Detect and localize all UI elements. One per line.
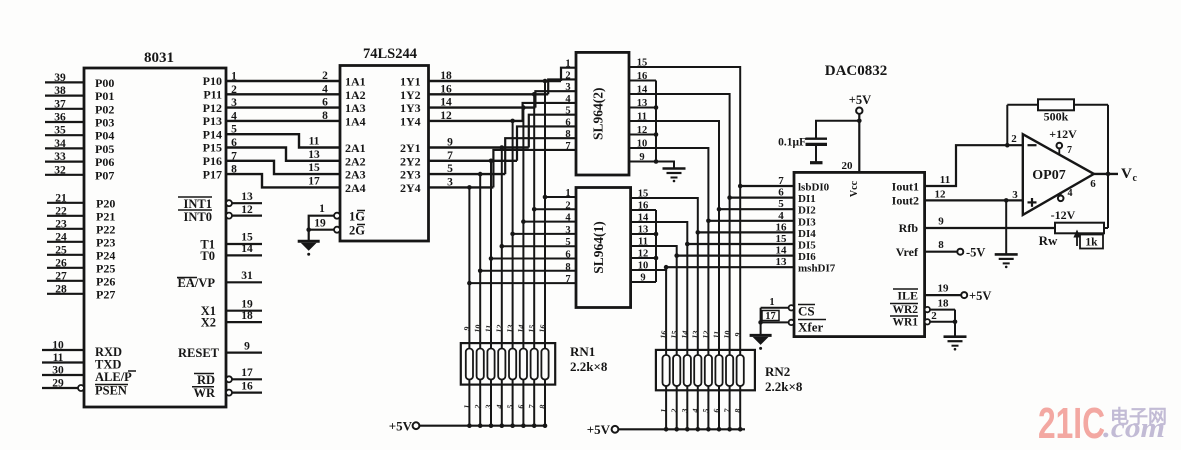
svg-text:lsbDI0: lsbDI0 [798,182,830,194]
wire P13 to 1A4 [226,120,340,122]
svg-text:16: 16 [637,71,648,82]
svg-text:Vcc: Vcc [849,180,860,197]
wire bus D5 vertical down to RN1 [490,161,492,385]
svg-text:P05: P05 [95,142,114,156]
wire RN1 element to common rail [490,385,492,426]
svg-text:30: 30 [52,365,64,377]
wire DI4 into DAC [698,231,794,233]
svg-text:+5V: +5V [849,93,871,107]
svg-text:2.2k×8: 2.2k×8 [765,379,803,394]
pin WR1 bubble [925,319,930,324]
ground at WR1/WR2 [944,335,967,338]
svg-text:OP07: OP07 [1032,168,1065,183]
terminal -12V pin 4 [1058,196,1064,202]
svg-text:15: 15 [638,189,649,200]
svg-text:Vref: Vref [896,245,919,259]
svg-text:Iout2: Iout2 [892,194,919,208]
svg-text:16: 16 [776,221,788,233]
junction at RN1 rail [510,423,515,428]
svg-text:34: 34 [54,138,66,150]
resistor RN1 element 7 [531,349,538,380]
wire data D2 jog up to SL964(2) pin 3 [535,91,576,107]
DAC U5 DAC0832 body [794,172,925,336]
svg-text:WR2: WR2 [892,304,918,316]
svg-text:16: 16 [241,380,253,392]
svg-text:17: 17 [241,367,253,379]
wire SL964(1) pin 15 stub [631,197,656,199]
wire data D4 from 74LS244 output [429,146,529,148]
svg-text:11: 11 [309,136,320,148]
resistor RN1 element 2 [477,349,484,380]
wire P14 to 2A1 with jog [226,134,340,147]
wire Iout1 pin 11 [925,145,1023,186]
svg-text:1k: 1k [1085,237,1098,249]
svg-text:1A1: 1A1 [345,75,366,89]
resistor network RN1 body [461,343,555,385]
wire WR1/WR2 tie to ground [954,310,956,337]
junction D3 at bus [510,119,515,124]
resistor RN2 element 1 [663,355,670,386]
wire DI3 into DAC [708,220,794,222]
ground under 74LS244 [298,240,320,243]
wire data D5 from 74LS244 output [429,160,518,162]
potentiometer Rw body [1055,223,1104,234]
wire data D2 from 74LS244 output [429,106,536,108]
svg-text:1: 1 [565,59,570,70]
svg-text:INT0: INT0 [184,210,212,224]
junction D0 at SL964(1) pin [543,195,548,200]
svg-text:2: 2 [565,70,570,81]
svg-text:RN2: RN2 [765,364,790,379]
pin INT0 bubble [226,213,232,219]
capacitor C1 0.1uF plates [806,137,828,139]
svg-text:11: 11 [483,324,493,333]
svg-text:T0: T0 [200,249,215,263]
svg-text:DI2: DI2 [798,205,816,217]
wire CS to junction [761,307,789,309]
wire bus D2 vertical down to RN1 [522,108,524,385]
svg-text:P16: P16 [203,154,222,168]
svg-text:32: 32 [54,164,66,176]
junction D0 at bus [543,79,548,84]
svg-text:9: 9 [244,340,250,352]
junction Vcc/capacitor [857,119,862,124]
svg-text:4: 4 [778,210,784,222]
svg-text:-5V: -5V [966,246,985,260]
wire P15 to 2A2 with jog [226,148,340,161]
wire SL964(1) left pin 2 stub [534,208,576,210]
wire pin 10 RXD stub [42,349,84,351]
wire bus D3 vertical down to RN1 [512,121,514,385]
wire Iout2 pin 12 to op-amp + input [925,199,1023,201]
svg-text:SL964(2): SL964(2) [591,87,606,140]
svg-text:39: 39 [54,72,66,84]
svg-text:Rfb: Rfb [899,221,919,235]
svg-text:19: 19 [241,298,253,310]
wire data D0 jog up to SL964(2) pin 1 [561,68,576,81]
svg-text:P06: P06 [95,155,114,169]
wire ILE pin 19 [925,294,961,296]
wire DI4 vertical down to RN2 [697,232,699,390]
svg-text:3: 3 [1012,189,1018,201]
wire DI2 vertical down to RN2 [718,209,720,390]
pin CS bubble [789,305,794,310]
svg-text:15: 15 [527,324,537,333]
svg-text:5: 5 [565,106,570,117]
wire T0 stub [226,254,262,256]
wire data D1 jog up to SL964(2) pin 2 [548,79,576,94]
wire pin 23 P22 stub [47,228,84,230]
svg-text:1Y4: 1Y4 [400,114,421,128]
wire SL964(1) left pin 5 stub [502,245,576,247]
junction at RN2 rail [696,427,701,432]
junction D1 at bus [532,92,537,97]
svg-text:28: 28 [55,283,67,295]
svg-text:15: 15 [637,58,648,69]
pin 20 Vcc wire [858,114,860,172]
svg-text:14: 14 [637,85,648,96]
svg-text:4: 4 [565,94,571,105]
svg-text:24: 24 [55,231,67,243]
pin Xfer bubble [789,320,794,325]
svg-text:6: 6 [565,250,570,261]
wire SL964(1) pin 12 stub [631,257,656,259]
junction at RN2 rail [706,427,711,432]
svg-text:P02: P02 [95,102,114,116]
svg-text:1Y1: 1Y1 [400,75,421,89]
svg-text:+5V: +5V [587,422,611,437]
wire capacitor C1 to bar [815,144,817,162]
wire SL964(2) pin 10 stub [629,147,656,149]
svg-text:21IC: 21IC [1038,399,1105,448]
wire DI2 into DAC [719,208,794,210]
svg-text:17: 17 [765,311,776,322]
wire SL964(1) pin 14 to DAC DI5 [656,222,687,244]
svg-text:35: 35 [54,125,66,137]
wire WR1 pin 2 [930,321,955,323]
wire op-amp output [1094,173,1118,175]
junction tie 13 of SL964(1) [654,232,659,237]
wire to capacitor C1 [816,121,859,139]
svg-text:+12V: +12V [1049,127,1077,141]
svg-text:1: 1 [319,203,325,215]
svg-text:.com: .com [1103,413,1165,444]
svg-text:2Y4: 2Y4 [400,181,421,195]
wire pin 26 P25 stub [47,267,84,269]
resistor RN1 element 1 [466,349,473,380]
svg-text:P22: P22 [96,222,115,236]
svg-text:22: 22 [55,205,67,217]
svg-text:36: 36 [54,112,66,124]
svg-text:P14: P14 [203,127,222,141]
junction D1 at SL964(1) pin [532,207,537,212]
wire RN2 common rail to +5V [618,428,745,430]
wire DI7 into DAC [666,266,794,268]
svg-text:13: 13 [638,225,649,236]
junction Iout2/ground [1004,198,1009,203]
svg-text:2Y1: 2Y1 [400,141,421,155]
svg-text:13: 13 [308,149,320,161]
svg-text:26: 26 [55,257,67,269]
junction DI2 bus [717,207,722,212]
svg-text:P15: P15 [203,141,222,155]
svg-text:13: 13 [637,98,648,109]
svg-text:P04: P04 [95,129,114,143]
wire pin 35 P04 stub [45,134,84,136]
svg-text:DI1: DI1 [798,193,816,205]
junction at RN1 rail [489,423,494,428]
wire SL964(1) pin 9 stub [631,281,656,283]
svg-text:P27: P27 [96,287,115,301]
svg-text:P07: P07 [95,168,114,182]
junction CS/Xfer [758,320,763,325]
svg-text:17: 17 [308,175,320,187]
svg-text:P13: P13 [203,114,222,128]
junction tie 12 [654,132,659,137]
svg-text:2Y3: 2Y3 [400,168,421,182]
resistor RN1 element 4 [498,349,505,380]
svg-text:7: 7 [778,175,784,187]
svg-text:+5V: +5V [969,289,991,303]
svg-text:6: 6 [322,97,328,109]
wire data D3 jog up to SL964(2) pin 4 [523,103,576,121]
svg-text:10: 10 [52,340,64,352]
junction at RN1 rail [500,423,505,428]
wire DI1 vertical down to RN2 [729,198,731,391]
svg-text:1Y2: 1Y2 [400,88,421,102]
junction DI5 bus [685,242,690,247]
wire SL964(2) pin 9 stub [629,161,656,163]
wire SL964(1) pin 14 stub [631,221,656,223]
wire pin 24 P23 stub [47,241,84,243]
wire SL964(2) unused outputs tie bus [655,81,657,162]
svg-text:2: 2 [322,70,328,82]
svg-text:29: 29 [52,378,64,390]
svg-text:INT1: INT1 [184,197,212,211]
wire pin 27 P26 stub [47,280,84,282]
svg-text:15: 15 [241,232,253,244]
wire 1G to 2G junction [309,216,334,230]
junction D6 at bus [478,172,483,177]
wire SL964(2) pin 16 stub [629,80,656,82]
svg-text:2A2: 2A2 [345,154,366,168]
RN1 bottom pin numbers [462,404,547,410]
wire SL964(2) pin 14 stub [629,93,656,95]
svg-text:10: 10 [473,324,483,333]
svg-text:WR1: WR1 [892,317,918,329]
svg-text:1A2: 1A2 [345,88,366,102]
junction at RN2 rail [727,427,732,432]
terminal +12V pin 7 [1057,143,1063,149]
svg-text:2A1: 2A1 [345,141,366,155]
svg-text:13: 13 [505,324,515,333]
pin 2G bubble [334,227,340,233]
wire SL964(1) left pin 7 stub [469,282,576,284]
svg-text:14: 14 [776,245,788,257]
svg-text:3: 3 [565,225,570,236]
junction tie 13 [654,105,659,110]
ground at op-amp + input [995,253,1018,256]
svg-text:4: 4 [322,83,328,95]
svg-text:2A4: 2A4 [345,181,366,195]
svg-text:2: 2 [931,310,937,322]
svg-text:14: 14 [241,243,253,255]
svg-text:16: 16 [638,201,649,212]
wire pin 28 P27 stub [47,293,84,295]
pin number 17 box [762,311,779,321]
wire RN1 element to common rail [544,385,546,426]
svg-text:1: 1 [565,188,570,199]
svg-text:P01: P01 [95,89,114,103]
svg-text:2: 2 [565,200,570,211]
junction tie 9 [654,159,659,164]
pin 1G bubble [334,213,340,219]
svg-text:8: 8 [938,239,944,251]
svg-text:14: 14 [680,330,690,339]
wire SL964(2) pin 15 to DAC DI0 [656,67,740,186]
junction WR1 tie [953,320,958,325]
svg-text:1A3: 1A3 [345,101,366,115]
wire DI7 vertical down to RN2 [665,267,667,390]
svg-text:12: 12 [935,189,947,201]
wire pin 29 PSEN stub [42,387,78,389]
svg-text:19: 19 [314,218,326,230]
wire SL964(1) left pin 1 stub [545,196,576,198]
wire SL964(2) pin 11 to DAC DI2 [656,121,719,209]
wire data D4 jog up to SL964(2) pin 5 [529,115,576,148]
junction D4 at bus [500,145,505,150]
wire pin 37 P02 stub [45,108,84,110]
wire DI5 vertical down to RN2 [686,244,688,390]
svg-text:WR: WR [193,386,216,400]
wire SL964(2) pin 13 stub [629,107,656,109]
wire RN2 element to common rail [739,390,741,429]
wire bus D0 vertical down to RN1 [544,81,546,385]
svg-text:P17: P17 [203,167,222,181]
wire P12 to 1A3 [226,106,340,108]
wire pin 38 P01 stub [45,94,84,96]
junction DI6 bus [674,253,679,258]
wire RN2 element to common rail [718,390,720,429]
wire RN1 element to common rail [522,385,524,426]
terminal +5V for RN1 [413,422,420,429]
svg-text:RN1: RN1 [570,344,595,359]
junction D7 at bus [467,185,472,190]
svg-text:mshDI7: mshDI7 [798,263,836,275]
wire Rw right link [1104,227,1108,229]
wire data D1 from 74LS244 output [429,93,549,95]
svg-text:11: 11 [638,237,648,248]
svg-text:V: V [1121,166,1132,182]
junction feedback at - input [1005,143,1010,148]
wire RN2 element to common rail [729,390,731,429]
wire data D3 from 74LS244 output [429,120,523,122]
junction D5 at bus [489,159,494,164]
junction D3 at SL964(1) pin [510,232,515,237]
RN1 top pin numbers [462,324,548,333]
junction at RN2 rail [664,427,669,432]
svg-text:5: 5 [778,198,784,210]
junction at RN2 rail [717,427,722,432]
microcontroller U1 8031 body [84,68,226,407]
svg-text:P10: P10 [203,74,222,88]
svg-text:11: 11 [637,112,647,123]
resistor RN2 element 3 [684,355,691,386]
svg-text:2Y2: 2Y2 [400,154,421,168]
svg-text:20: 20 [842,160,854,172]
wire X1 stub [226,310,262,312]
svg-text:8: 8 [565,262,570,273]
svg-text:PSEN: PSEN [95,384,127,398]
junction D2 at SL964(1) pin [521,219,526,224]
svg-text:6: 6 [565,117,570,128]
potentiometer wiper arrow [1076,237,1078,246]
wire Rfb pin 9 to Rw [925,227,1057,229]
wire SL964(1) pin 11 stub [631,245,656,247]
svg-text:2: 2 [1011,133,1017,145]
svg-text:RD: RD [197,373,215,387]
resistor RN1 element 8 [541,349,548,380]
op-amp U6 OP07 triangle [1023,134,1094,215]
svg-text:P26: P26 [96,274,115,288]
wire P10 to 1A1 [226,80,340,82]
svg-text:13: 13 [690,330,700,339]
resistor R1 500k body [1038,99,1074,110]
wire RN1 element to common rail [512,385,514,426]
svg-text:DI6: DI6 [798,251,816,263]
svg-text:4: 4 [565,213,571,224]
resistor 1k box [1080,235,1103,249]
resistor network RN2 body [656,350,755,390]
svg-text:1A4: 1A4 [345,114,366,128]
wire feedback top [1007,104,1108,106]
svg-text:25: 25 [55,244,67,256]
terminal +5V for RN2 [612,426,619,433]
junction D6 at SL964(1) pin [478,269,483,274]
svg-text:31: 31 [241,270,253,282]
wire RN2 element to common rail [665,390,667,429]
buffer U2 74LS244 body [340,66,429,242]
junction D4 at SL964(1) pin [500,244,505,249]
svg-text:P25: P25 [96,261,115,275]
wire data D6 from 74LS244 output [429,173,506,175]
wire pin 33 P06 stub [45,161,84,163]
wire SL964(1) left pin 6 stub [491,258,576,260]
wire DI1 into DAC [730,197,794,199]
svg-text:15: 15 [308,162,320,174]
chip U4 SL964(1) body [576,188,631,308]
wire pin 36 P03 stub [45,121,84,123]
wire DI0 into DAC [740,185,794,187]
wire SL964(1) pin 10 to DAC DI7 [656,267,666,270]
junction tie 12 of SL964(1) [654,256,659,261]
svg-text:14: 14 [638,213,649,224]
svg-text:12: 12 [494,324,504,333]
terminal +5V at DAC Vcc [856,108,862,114]
svg-text:23: 23 [55,218,67,230]
svg-text:8: 8 [565,129,570,140]
wire pin 22 P21 stub [47,215,84,217]
wire Xfer to junction [761,321,789,323]
svg-text:4: 4 [1068,188,1073,199]
wire pin 32 P07 stub [45,174,84,176]
svg-text:+5V: +5V [389,419,413,434]
wire RN2 element to common rail [676,390,678,429]
op-amp minus sign [1028,144,1037,146]
svg-text:13: 13 [776,256,788,268]
svg-text:2.2k×8: 2.2k×8 [570,359,608,374]
junction DI7 bus [664,265,669,270]
